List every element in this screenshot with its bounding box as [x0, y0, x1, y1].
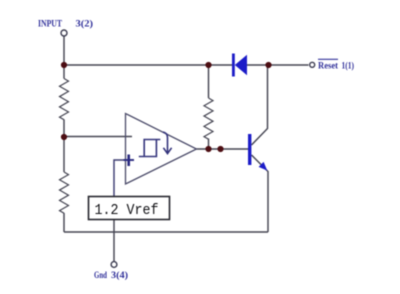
resistor R2 (lower divider)	[60, 172, 69, 213]
junction: divider midpoint node B	[61, 134, 67, 140]
wire: bottom rail	[64, 231, 268, 233]
wire: R1 to R2	[63, 120, 65, 173]
wire: emitter lead	[252, 155, 269, 232]
svg-text:INPUT: INPUT	[38, 20, 63, 30]
label Gnd 3(4)	[94, 270, 128, 281]
wire: node R3 top lead	[208, 65, 210, 98]
label Reset 1(1)	[318, 59, 354, 71]
svg-text:3(2): 3(2)	[76, 19, 94, 30]
wire: non-inverting input to Vref	[114, 160, 134, 197]
op-amp U1 comparator	[126, 114, 197, 185]
wire: op-amp output to transistor base	[197, 148, 249, 150]
svg-text:1(1): 1(1)	[342, 60, 355, 71]
diode D1	[232, 54, 247, 77]
junction: output node dot 2	[217, 146, 223, 152]
falling-edge arrow inside U1	[163, 132, 172, 154]
svg-text:Reset: Reset	[318, 61, 339, 71]
junction: anode/collector node	[265, 62, 271, 68]
resistor R3 (pull-up)	[204, 98, 213, 139]
junction: output node dot 1	[205, 146, 211, 152]
wire: Vref box to ground terminal	[113, 220, 115, 262]
junction: diode/R3 node	[205, 62, 211, 68]
wire: top rail to diode cathode	[64, 64, 233, 66]
wire: R3 bottom lead to output node	[208, 139, 210, 150]
terminal: INPUT pin	[61, 30, 67, 36]
hysteresis symbol inside U1	[139, 140, 161, 157]
wire: input terminal to top rail	[63, 37, 65, 79]
wire: inverting input from divider node	[64, 136, 132, 138]
svg-text:Gnd: Gnd	[94, 271, 108, 281]
transistor Q1 NPN	[248, 134, 267, 171]
wire: diode anode to reset terminal	[247, 64, 309, 66]
wire: collector to diode node	[252, 65, 268, 145]
Vref box U2	[89, 197, 170, 220]
plus sign at non-inverting input	[124, 155, 135, 167]
resistor R1 (upper divider)	[60, 79, 69, 120]
label INPUT 3(2)	[38, 19, 93, 30]
svg-text:1.2 Vref: 1.2 Vref	[95, 202, 159, 219]
terminal: Gnd pin	[111, 262, 117, 268]
junction: input node A	[61, 62, 67, 68]
svg-text:3(4): 3(4)	[111, 270, 128, 281]
terminal: Reset pin	[310, 62, 315, 67]
wire: R2 to bottom rail	[63, 213, 65, 232]
